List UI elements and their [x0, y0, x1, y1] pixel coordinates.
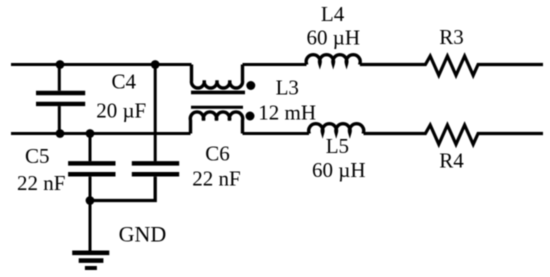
- svg-text:L3: L3: [276, 75, 299, 99]
- svg-text:60 µH: 60 µH: [312, 158, 366, 182]
- svg-text:C5: C5: [25, 144, 50, 168]
- svg-text:R3: R3: [439, 25, 464, 49]
- svg-text:12 mH: 12 mH: [258, 101, 316, 125]
- svg-text:GND: GND: [119, 222, 167, 247]
- svg-text:C4: C4: [112, 70, 137, 94]
- svg-text:22 nF: 22 nF: [17, 171, 65, 195]
- svg-text:L5: L5: [326, 134, 349, 158]
- svg-text:C6: C6: [205, 142, 230, 166]
- svg-text:20 µF: 20 µF: [96, 99, 146, 123]
- svg-text:60 µH: 60 µH: [307, 25, 361, 49]
- svg-text:22 nF: 22 nF: [192, 167, 240, 191]
- svg-text:L4: L4: [321, 2, 345, 26]
- svg-text:R4: R4: [439, 148, 464, 172]
